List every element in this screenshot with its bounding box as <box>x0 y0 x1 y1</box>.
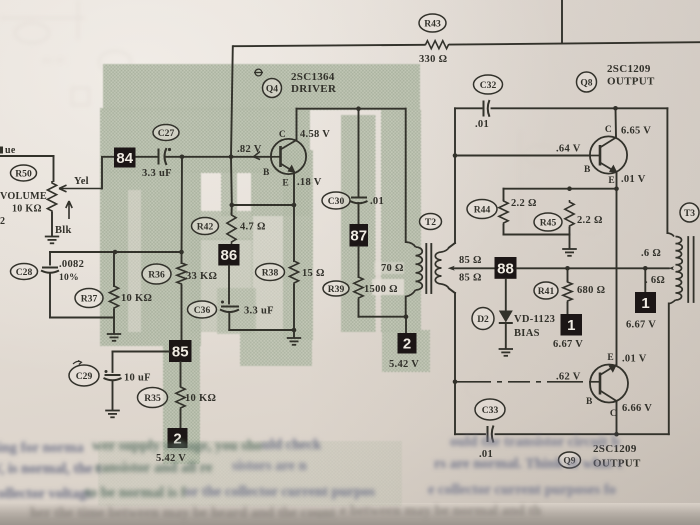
wire R38 to rail <box>293 285 295 330</box>
svg-text:V, is normal, the t: V, is normal, the t <box>0 461 101 477</box>
wire T2 bottom rail <box>359 316 406 318</box>
wire R39 to bottom rail <box>358 300 360 317</box>
svg-text:.01: .01 <box>370 196 384 207</box>
svg-text:to be normal is f: to be normal is f <box>85 485 186 501</box>
wire R50 to ground <box>51 213 53 236</box>
svg-text:R36: R36 <box>148 269 165 280</box>
wire emitter column Q8-Q9 <box>616 189 618 365</box>
testpoint 85 <box>169 340 192 362</box>
testpoint arrow .82V <box>254 152 261 160</box>
svg-text:OUTPUT: OUTPUT <box>607 76 655 88</box>
wire R45 bottom <box>569 228 571 235</box>
svg-text:collector voltage: collector voltage <box>0 486 93 502</box>
R39 designator oval <box>323 281 349 296</box>
ground R50 <box>45 236 59 238</box>
C27 designator oval <box>153 125 179 141</box>
svg-text:e collector current purposes f: e collector current purposes fo <box>428 482 616 498</box>
Blk arrow annotation <box>66 201 72 219</box>
wire Q4 base row <box>102 156 157 158</box>
svg-text:E: E <box>608 176 615 186</box>
ground emitter rail <box>287 337 301 339</box>
svg-text:VD-1123: VD-1123 <box>514 314 555 325</box>
svg-text:Q8: Q8 <box>580 79 592 89</box>
wire emitter bottom rail <box>229 329 294 331</box>
transistor Q4 symbol <box>271 139 306 174</box>
svg-text:ransistor and all re: ransistor and all re <box>95 460 213 476</box>
testpoint 2 (left) <box>168 428 188 448</box>
transistor Q8 symbol <box>590 136 627 173</box>
wire Q8 collector <box>615 108 618 137</box>
wire 33K column top <box>181 157 184 263</box>
svg-text:VOLUME: VOLUME <box>0 191 47 202</box>
svg-text:ue: ue <box>5 145 16 156</box>
T3 center tap <box>669 266 675 270</box>
wire R44 drop <box>503 189 505 200</box>
R36 designator oval <box>142 264 171 284</box>
testpoint 84 <box>114 148 136 168</box>
svg-text:88: 88 <box>497 260 514 277</box>
label lue (Blue) <box>0 147 3 154</box>
wire Q9 bottom rail <box>454 382 456 434</box>
wire input from Blue lead <box>0 155 54 157</box>
svg-text:1: 1 <box>641 295 649 312</box>
R44 designator oval <box>467 200 497 219</box>
svg-text:E: E <box>607 353 614 363</box>
node C30 top <box>356 106 361 111</box>
potentiometer R50 element <box>47 181 56 213</box>
svg-text:85 Ω: 85 Ω <box>459 255 482 266</box>
wire R41 to testpoint 1 <box>567 303 569 314</box>
svg-text:.64 V: .64 V <box>556 144 581 155</box>
wire R37 column <box>113 252 115 286</box>
resistor R36 33K <box>177 261 186 286</box>
blurred paragraph text <box>0 434 624 521</box>
T3 bottom lead <box>669 300 676 304</box>
svg-text:R43: R43 <box>424 18 441 29</box>
svg-text:T3: T3 <box>684 209 695 219</box>
svg-text:1: 1 <box>567 317 575 334</box>
testpoint 2 (right) <box>398 333 417 354</box>
transformer T3 winding <box>676 237 683 301</box>
wire D2 to ground <box>505 323 507 348</box>
svg-text:85: 85 <box>172 343 189 360</box>
green highlighter overlay <box>98 64 430 506</box>
svg-text:wer supply voltage, you sho: wer supply voltage, you sho <box>92 438 262 454</box>
node bias row right <box>179 250 184 255</box>
ground C29 <box>105 410 120 412</box>
svg-text:C27: C27 <box>158 128 175 139</box>
svg-text:.01 V: .01 V <box>622 354 647 365</box>
svg-text:80 8C: 80 8C <box>42 55 69 67</box>
node emitter row R45 <box>567 186 572 191</box>
wire Q8 emitter <box>616 173 618 189</box>
polarity mark above Q4 <box>255 69 262 76</box>
node bottom rail Q9 <box>614 432 619 437</box>
wire Q9 base dashed <box>455 381 590 383</box>
C33 designator oval <box>475 399 505 420</box>
wire R35 to testpoint 2 <box>180 410 182 428</box>
ground R37 <box>107 333 121 335</box>
svg-text:70 Ω: 70 Ω <box>381 263 404 274</box>
wire collector row to T2 <box>297 108 406 110</box>
wire C30 column <box>358 109 360 197</box>
wire R44 R45 bottom rail <box>504 234 570 236</box>
ground D2 <box>499 348 513 350</box>
R41 designator oval <box>534 282 558 299</box>
svg-text:Yel: Yel <box>74 176 89 187</box>
svg-text:10%: 10% <box>59 273 79 283</box>
svg-text:10 KΩ: 10 KΩ <box>12 204 42 215</box>
node bias row left <box>113 250 118 255</box>
T2 center tap wire <box>448 266 455 271</box>
resistor R41 <box>567 268 569 281</box>
svg-text:2.2 Ω: 2.2 Ω <box>577 215 603 226</box>
svg-text:ould the transistor circuit b: ould the transistor circuit b <box>450 434 619 450</box>
T2 secondary top lead <box>442 248 450 253</box>
svg-text:.01 V: .01 V <box>621 174 646 185</box>
capacitor C36 plates <box>221 306 239 308</box>
svg-text:2: 2 <box>0 216 5 227</box>
svg-text:R39: R39 <box>328 284 345 295</box>
svg-text:R44: R44 <box>474 204 491 215</box>
testpoint 1 (left) <box>561 314 583 336</box>
svg-text:e between may be normal and th: e between may be normal and th <box>340 503 541 519</box>
R38 designator oval <box>256 264 285 281</box>
transformer T2 primary lead <box>405 109 407 242</box>
wire 86 to C36 <box>228 266 230 304</box>
svg-text:R42: R42 <box>197 221 214 232</box>
svg-text:15 Ω: 15 Ω <box>302 268 325 279</box>
svg-text:DRIVER: DRIVER <box>291 83 337 95</box>
testpoint 87 <box>350 224 369 247</box>
wire Q4 emitter down <box>293 172 295 261</box>
R50 wiper arrow <box>59 185 102 192</box>
svg-text:2: 2 <box>403 336 411 353</box>
svg-text:D2: D2 <box>477 315 489 325</box>
node base/R43 junction <box>229 155 234 160</box>
svg-text:B: B <box>586 397 593 407</box>
resistor R44 <box>499 199 508 225</box>
T2 designator oval <box>420 214 442 230</box>
wire C28 branch down <box>49 252 51 265</box>
wire R36 to 85 <box>181 286 183 340</box>
node Q8 base junction <box>453 153 458 158</box>
svg-text:33 KΩ: 33 KΩ <box>186 271 217 282</box>
resistor R42 <box>231 205 233 214</box>
svg-text:R45: R45 <box>540 217 557 228</box>
wire base node down to R42 <box>230 157 233 205</box>
transistor Q9 symbol <box>590 365 628 403</box>
svg-text:10 KΩ: 10 KΩ <box>121 293 152 304</box>
T2 secondary bottom lead <box>442 284 450 289</box>
T2 primary bottom lead <box>406 290 416 297</box>
transformer T2 primary winding <box>416 247 423 290</box>
svg-text:Blk: Blk <box>55 225 72 236</box>
resistor R38 <box>289 259 298 285</box>
R42 designator oval <box>192 218 219 235</box>
svg-text:330 Ω: 330 Ω <box>419 54 447 65</box>
node Q8 collector junction <box>613 106 618 111</box>
svg-text:84: 84 <box>116 150 133 167</box>
svg-text:.01: .01 <box>475 119 489 130</box>
node right-1 stem <box>643 266 648 271</box>
D2 designator circle <box>472 308 494 330</box>
wire Q9 collector <box>616 401 618 434</box>
resistor R45 <box>565 200 574 228</box>
wire stem to right testpoint 1 <box>644 268 646 292</box>
wire C32 row <box>455 107 482 109</box>
svg-text:86: 86 <box>221 247 238 264</box>
node emitter row right <box>614 186 619 191</box>
C36 designator oval <box>188 301 217 318</box>
T3 designator circle <box>680 203 699 222</box>
svg-text:T2: T2 <box>425 217 436 228</box>
Q8 designator circle <box>577 72 597 92</box>
R35 designator oval <box>138 388 168 408</box>
testpoint 86 <box>218 244 239 266</box>
svg-text:5.42 V: 5.42 V <box>389 359 419 370</box>
testpoint 1 (right) <box>635 292 656 313</box>
node Q4 emitter junction <box>292 203 297 208</box>
C30 designator oval <box>322 192 350 209</box>
wire C28 to bottom <box>49 273 51 318</box>
svg-text:C30: C30 <box>328 196 345 207</box>
svg-text:E: E <box>282 179 289 189</box>
svg-text:C29: C29 <box>76 371 93 382</box>
svg-text:sistors are n: sistors are n <box>232 458 307 474</box>
wire rail to ground R37 <box>113 318 115 334</box>
wire R37 to rail <box>113 310 115 318</box>
Q4 designator circle <box>263 79 282 98</box>
wire C29 tap <box>113 351 170 353</box>
node R42 top <box>230 203 235 208</box>
R37 designator oval <box>75 289 103 308</box>
svg-text:.0082: .0082 <box>59 259 84 270</box>
svg-text:2.2 Ω: 2.2 Ω <box>511 198 537 209</box>
svg-text:BIAS: BIAS <box>514 328 540 339</box>
svg-text:B: B <box>263 168 270 178</box>
svg-text:her the time between may be he: her the time between may be heard and th… <box>30 505 336 521</box>
svg-text:C: C <box>605 125 612 135</box>
svg-text:Q4: Q4 <box>266 85 278 95</box>
capacitor C27 plates <box>158 149 160 165</box>
svg-text:3.3 uF: 3.3 uF <box>142 168 172 179</box>
wire D2 drop <box>505 279 507 310</box>
svg-text:R38: R38 <box>262 267 279 278</box>
diode D2 <box>499 311 513 323</box>
wire 87 to R39 <box>358 247 360 278</box>
svg-text:R50: R50 <box>15 168 32 179</box>
C28 designator oval <box>11 264 38 280</box>
svg-text:2SC1364: 2SC1364 <box>291 71 335 83</box>
C29 designator oval <box>69 365 99 386</box>
wire R44 bottom <box>503 225 505 235</box>
wire Q4 collector up <box>296 109 298 140</box>
ground R45 <box>562 248 577 250</box>
Q9 designator circle <box>559 452 581 468</box>
capacitor C28 plates <box>42 267 58 269</box>
svg-text:680 Ω: 680 Ω <box>577 285 605 296</box>
svg-text:C36: C36 <box>194 305 211 316</box>
wire B+ feed top right <box>561 0 563 43</box>
node base/C27 junction <box>180 155 185 160</box>
svg-text:85 Ω: 85 Ω <box>459 273 482 284</box>
wire bias bottom rail <box>50 317 114 319</box>
wire C36 to bottom rail <box>228 312 230 330</box>
wire stem to testpoint 2 <box>405 317 407 333</box>
node R41 top <box>565 266 570 271</box>
resistor R39 <box>354 275 363 300</box>
svg-text:or the collector current purpo: or the collector current purpos <box>185 484 375 500</box>
capacitor C32 plates <box>483 101 485 117</box>
svg-text:R41: R41 <box>538 286 555 297</box>
wire 88 row right <box>517 267 669 269</box>
svg-text:87: 87 <box>350 228 367 245</box>
capacitor C29 plates <box>105 374 121 376</box>
svg-text:sing for norma: sing for norma <box>0 440 84 456</box>
svg-text:2SC1209: 2SC1209 <box>607 63 651 75</box>
R45 designator oval <box>534 213 562 231</box>
svg-text:4.7 Ω: 4.7 Ω <box>240 222 266 233</box>
svg-text:. 6Ω: . 6Ω <box>645 275 665 286</box>
C32 designator oval <box>474 75 503 94</box>
wire Q8 emitter row <box>504 188 617 190</box>
wire C29 to ground <box>112 381 114 410</box>
wire R42 node to emitter node <box>232 204 294 206</box>
R50 designator oval <box>11 165 37 181</box>
svg-text:B: B <box>584 165 591 175</box>
svg-text:C32: C32 <box>480 80 497 91</box>
svg-text:10 KΩ: 10 KΩ <box>185 393 216 404</box>
resistor R43 <box>424 41 450 49</box>
svg-text:C28: C28 <box>16 267 33 278</box>
svg-text:uld check: uld check <box>262 437 322 453</box>
resistor R35 <box>176 385 185 410</box>
svg-text:R35: R35 <box>144 393 161 404</box>
svg-text:C: C <box>279 130 286 140</box>
wire rail to ground R45 <box>569 235 571 249</box>
R43 designator oval <box>419 14 446 32</box>
resistor R37 <box>109 284 118 310</box>
svg-text:.82 V: .82 V <box>237 144 262 155</box>
svg-text:.18 V: .18 V <box>297 177 322 188</box>
svg-text:1500 Ω: 1500 Ω <box>364 284 398 295</box>
svg-text:rs are normal. Think of what c: rs are normal. Think of what c <box>434 456 624 472</box>
svg-text:C33: C33 <box>482 405 499 416</box>
wire 85 to R35 <box>180 362 182 386</box>
wire rail to ground stem <box>293 330 295 337</box>
node emitter rail ground <box>292 328 297 333</box>
wire bias row <box>50 251 182 253</box>
node Q9 base junction <box>453 380 458 385</box>
svg-text:R37: R37 <box>81 293 98 304</box>
svg-text:4.58 V: 4.58 V <box>300 129 330 140</box>
svg-text:6.66 V: 6.66 V <box>622 403 652 414</box>
wire wiper Yel to 84 row <box>101 158 103 189</box>
svg-text:.6 Ω: .6 Ω <box>641 248 661 259</box>
transformer T2 secondary winding <box>435 252 441 284</box>
wire C32 row corner down <box>666 108 668 233</box>
transformer T3 core <box>687 237 689 302</box>
svg-text:.62 V: .62 V <box>556 372 581 383</box>
node testpoint2 right stem <box>404 314 409 319</box>
wire R43 rail to Q4 base (vertical x=232) <box>231 46 233 157</box>
T3 top lead <box>667 233 674 237</box>
wire Q8 base <box>455 155 590 157</box>
svg-text:3.3 uF: 3.3 uF <box>244 306 274 317</box>
svg-text:6.65 V: 6.65 V <box>621 126 651 137</box>
capacitor C33 plates <box>487 426 489 442</box>
svg-text:10 uF: 10 uF <box>124 373 151 384</box>
testpoint 88 <box>495 257 517 279</box>
transformer T2 core <box>425 244 427 293</box>
capacitor C30 plates <box>351 197 367 199</box>
svg-text:6.67 V: 6.67 V <box>553 339 583 350</box>
wire R43 rail <box>234 45 424 46</box>
svg-text:6.67 V: 6.67 V <box>626 320 656 331</box>
